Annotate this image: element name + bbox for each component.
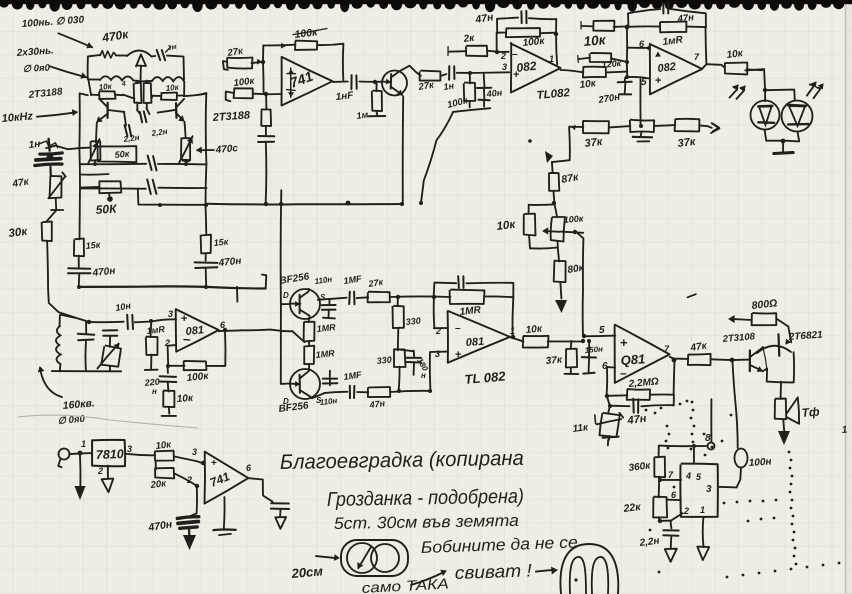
svg-text:100к: 100к xyxy=(563,213,584,225)
wire (Q5 drain) xyxy=(281,383,290,385)
resistor 80k xyxy=(554,261,566,283)
transistor Q2 xyxy=(175,103,178,118)
resistor 20k xyxy=(155,461,157,469)
capacitor 47n (U3 fb) xyxy=(628,9,660,27)
wire (pin7) xyxy=(660,479,681,481)
transistor Q1 xyxy=(106,103,108,118)
capacitor 110n (lower) xyxy=(312,393,325,398)
resistor 100k (741 in) xyxy=(234,88,253,99)
svg-text:1: 1 xyxy=(510,326,515,336)
svg-text:Тф: Тф xyxy=(801,404,820,420)
svg-text:7810: 7810 xyxy=(96,447,124,462)
resistor 10k (U4 gnd) xyxy=(163,391,174,408)
op-amp U1 741 xyxy=(282,57,333,106)
wire (stub) xyxy=(236,287,238,302)
arrow (gnd 2.2n) xyxy=(665,549,677,562)
capacitor 2.2n (low) xyxy=(125,125,128,136)
resistor 330 (1) xyxy=(393,306,404,328)
pretzel sketch (wrong coil) xyxy=(560,544,618,594)
wire (pin6) xyxy=(667,499,681,501)
resistor 10k (7810) xyxy=(155,451,174,461)
resistor 10k (left) xyxy=(99,91,116,99)
wire (left rail down) xyxy=(47,241,89,322)
wire (rail stub down) xyxy=(280,190,283,384)
wire (U5 pin5 in) xyxy=(583,335,615,338)
arrow (below speaker) xyxy=(782,420,785,431)
svg-text:н: н xyxy=(421,371,426,380)
ink dots (pen rest trail) xyxy=(691,401,694,404)
svg-text:50к: 50к xyxy=(114,148,130,160)
wire (U3 pin6 link) xyxy=(627,47,649,49)
wire (U2b pin2) xyxy=(434,327,448,329)
resistor 22k xyxy=(653,497,667,518)
node 8 xyxy=(708,443,715,450)
resistor 470k (zigzag) xyxy=(100,51,116,58)
wire (mid rail) xyxy=(79,286,265,288)
wire (to U5 pin5) xyxy=(578,234,584,337)
capacitor 1n (stack) xyxy=(49,139,50,151)
wire (below 22k) xyxy=(659,517,672,521)
wire (osc web) xyxy=(123,95,134,99)
svg-text:1н: 1н xyxy=(443,80,455,92)
wire (to LED1) xyxy=(745,69,765,101)
resistor 100k (U2 fb) xyxy=(497,33,506,53)
svg-text:1нF: 1нF xyxy=(335,90,355,103)
svg-text:081: 081 xyxy=(185,324,205,338)
wire (LED bottoms) xyxy=(765,130,784,141)
resistor 1MR (to gnd) xyxy=(150,321,153,336)
trimmer capacitor (tank) xyxy=(103,329,118,331)
wire (fb right) xyxy=(511,283,514,337)
resistor 100k (741 fb) xyxy=(295,41,317,50)
capacitor (top box) xyxy=(157,50,161,60)
arrow (10kHz) xyxy=(37,112,77,116)
wire (cap to Q3) xyxy=(359,81,382,83)
trimmer 47k xyxy=(50,176,62,198)
capacitor 47n (U5 fb2) xyxy=(607,396,630,407)
coil sketch (correct) xyxy=(341,540,408,576)
wire (555 top rail) xyxy=(659,445,707,448)
svg-text:15к: 15к xyxy=(85,239,101,251)
op-amp U5 Q81 xyxy=(615,325,670,383)
resistor 800R xyxy=(752,313,777,325)
resistor 360k xyxy=(654,457,665,478)
transformer winding (left) xyxy=(100,76,133,80)
svg-text:330: 330 xyxy=(376,354,392,366)
svg-text:10к: 10к xyxy=(496,219,517,233)
wire (osc out link) xyxy=(184,94,207,97)
capacitor (bus a) xyxy=(148,156,152,170)
svg-text:20см: 20см xyxy=(290,563,324,581)
svg-text:–: – xyxy=(620,366,627,380)
resistor 10k (U3 pin6) xyxy=(580,22,582,29)
resistor 10k (pot loop) xyxy=(524,214,536,236)
op-amp U2b 081 xyxy=(448,311,510,363)
wire (U2 out) xyxy=(561,70,584,72)
wire (U2 pin3) xyxy=(470,71,510,74)
resistor 2k xyxy=(466,46,487,57)
wire (bus row 1) xyxy=(46,146,90,150)
svg-text:470с: 470с xyxy=(214,143,239,156)
arrow (gnd pin1) xyxy=(697,547,709,561)
svg-text:5: 5 xyxy=(641,77,647,88)
pot loop (top/bottom) xyxy=(529,203,554,205)
transformer winding (right) xyxy=(152,77,184,81)
svg-text:1: 1 xyxy=(700,505,705,515)
LED D2 xyxy=(782,101,813,132)
wire (jack down) xyxy=(79,453,82,486)
wire (U2 pin2) xyxy=(497,51,509,53)
resistor 10k (U3 pin5) xyxy=(582,71,584,73)
wire (bus rail 1) xyxy=(81,163,146,165)
trimmer P2 (470) xyxy=(181,138,191,160)
capacitor 2.2n xyxy=(663,529,678,531)
ground (U6) xyxy=(223,497,226,529)
svg-text:082: 082 xyxy=(516,59,538,75)
wire (U2b out) xyxy=(510,337,523,341)
resistor (741 gnd branch) xyxy=(261,109,271,126)
svg-text:20к: 20к xyxy=(149,478,168,491)
arrow (to pretzel) xyxy=(536,570,554,572)
svg-text:2: 2 xyxy=(97,466,103,476)
resistor 1MR (chain 2) xyxy=(308,341,310,346)
capacitor 10n xyxy=(126,315,129,329)
capacitor 1n xyxy=(448,66,450,80)
capacitor 470n (right) xyxy=(195,261,218,264)
resistor 15k (right) xyxy=(201,235,211,254)
LED D1 xyxy=(751,101,780,130)
wire (to 30k) xyxy=(46,211,56,222)
pen dash xyxy=(688,294,696,297)
wire (gnd sweep) xyxy=(453,108,490,112)
wire (U6 out) xyxy=(248,478,273,502)
wire (osc box bottom) xyxy=(138,189,206,205)
svg-text:10к: 10к xyxy=(525,324,543,336)
wire (U3 bus) xyxy=(626,27,628,78)
wire (U3 pin5 link) xyxy=(627,77,649,79)
capacitor (741 gnd branch) xyxy=(258,135,274,137)
wire (bus rail 3) xyxy=(81,187,146,189)
svg-text:3: 3 xyxy=(706,484,712,495)
resistor (row 2) xyxy=(630,120,654,133)
wire (center tap) xyxy=(133,80,152,81)
arrow (inside coil) xyxy=(358,546,371,568)
wire (pin1) xyxy=(702,517,705,547)
svg-text:50К: 50К xyxy=(95,201,118,217)
svg-text:3: 3 xyxy=(435,349,440,359)
svg-text:37к: 37к xyxy=(545,355,563,367)
svg-text:–: – xyxy=(512,49,518,60)
trimmer symbol (top box) xyxy=(136,54,146,66)
wire (U4 out to chain) xyxy=(240,330,292,332)
svg-text:47н: 47н xyxy=(368,398,386,410)
resistor 47k (out) xyxy=(688,354,711,365)
svg-text:∅ 0я0: ∅ 0я0 xyxy=(23,63,51,75)
arrow (filled, 470n) xyxy=(183,535,196,550)
resistor 27k xyxy=(420,71,441,81)
speaker TF xyxy=(775,399,787,420)
resistor 120k xyxy=(577,56,580,63)
svg-text:Благоевградка (копирана: Благоевградка (копирана xyxy=(280,447,524,474)
svg-text:4: 4 xyxy=(120,81,126,88)
LED emission arrows (right) xyxy=(807,85,814,96)
capacitor (U6 out) xyxy=(271,502,289,504)
resistor 330 (2) xyxy=(394,349,406,368)
potentiometer 50K xyxy=(99,181,122,193)
wire (osc box left edge) xyxy=(78,93,81,239)
svg-text:10к: 10к xyxy=(176,393,194,405)
capacitor 1nF xyxy=(350,75,352,89)
svg-text:+: + xyxy=(620,335,628,350)
svg-text:1МR: 1МR xyxy=(316,322,336,334)
resistor 100k (U4 feedback) xyxy=(168,365,185,367)
svg-text:330: 330 xyxy=(405,315,421,327)
resistor 15k (left) xyxy=(74,239,84,257)
resistor (center left) xyxy=(134,83,142,104)
capacitor 40n xyxy=(483,74,486,87)
svg-text:47н: 47н xyxy=(626,413,648,427)
resistor 47n (lower) xyxy=(368,387,390,397)
svg-text:110н: 110н xyxy=(319,396,338,407)
svg-text:1мR: 1мR xyxy=(146,324,166,336)
svg-text:8: 8 xyxy=(705,433,711,444)
transistor Q3 xyxy=(382,71,407,96)
wire (U5 out) xyxy=(670,357,688,359)
ink dot (stray) xyxy=(528,139,532,143)
svg-text:10к: 10к xyxy=(583,32,607,49)
capacitor 47n (U2 fb) xyxy=(497,18,518,33)
svg-text:10к: 10к xyxy=(726,48,744,61)
resistor 87k xyxy=(551,162,554,173)
wire (tank bottom) xyxy=(52,370,121,372)
resistor 30k xyxy=(42,222,52,242)
ground (LEDs) xyxy=(782,142,784,151)
svg-text:3: 3 xyxy=(168,309,173,319)
resistor 1MR (U2b fb) xyxy=(450,290,485,304)
capacitor 110n (upper) xyxy=(318,298,329,301)
LED emission arrows (left) xyxy=(730,87,738,98)
svg-text:+: + xyxy=(181,313,187,325)
svg-text:150н: 150н xyxy=(584,344,603,355)
capacitor (bus b) xyxy=(147,180,151,195)
arrow (gnd U6 out) xyxy=(275,517,286,529)
resistor 1M (Q3 bias) xyxy=(376,83,378,91)
svg-text:2: 2 xyxy=(500,51,506,61)
svg-text:2: 2 xyxy=(683,506,689,516)
resistor 27k (741) xyxy=(227,58,253,69)
wire (Q2 emitter) xyxy=(185,122,186,138)
wire (U5 pin6) xyxy=(607,367,616,396)
svg-text:+: + xyxy=(455,349,461,361)
wire (rail to opamp) xyxy=(135,319,176,322)
connector (input jack) xyxy=(59,449,70,460)
transistor Q7 2T6821 xyxy=(757,346,791,353)
arrow (800R left) xyxy=(734,318,752,321)
arrow (filled, jack) xyxy=(75,486,86,500)
capacitor (U2b fb) xyxy=(434,283,457,298)
op-amp U6 741 xyxy=(205,452,249,504)
wire (741 out) xyxy=(333,81,348,83)
pencil curve xyxy=(18,415,198,428)
wire (741 bottom rail) xyxy=(206,203,403,206)
wire (U4 pin2) xyxy=(168,345,177,366)
svg-text:1МR: 1МR xyxy=(315,348,335,360)
wire (pin5 to row) xyxy=(639,79,641,126)
wire (hop) xyxy=(127,51,151,57)
transistor Q5 BF256 xyxy=(290,369,320,399)
trimmer 11k xyxy=(608,406,610,414)
capacitor 180n xyxy=(398,350,413,352)
resistor (center right) xyxy=(144,83,152,103)
curved arrow (to tank) xyxy=(40,368,62,397)
capacitor 220n xyxy=(167,366,169,373)
wire (Q4 source) xyxy=(329,298,347,299)
svg-text:3: 3 xyxy=(192,447,197,457)
wire (to lower) xyxy=(265,94,267,109)
wire (bus rail 2) xyxy=(81,173,109,176)
resistor 100k (gnd) xyxy=(469,74,471,84)
wire (Q3 collector out) xyxy=(400,66,421,76)
resistor 2.2M (U5 fb) xyxy=(607,394,627,397)
svg-text:2: 2 xyxy=(435,326,441,336)
svg-text:37к: 37к xyxy=(584,136,605,150)
svg-text:37к: 37к xyxy=(677,136,698,150)
ground (row) xyxy=(640,132,643,135)
transistor Q4 BF256 xyxy=(290,289,320,319)
svg-text:2к: 2к xyxy=(462,33,476,45)
wire (Q1 emitter) xyxy=(95,123,98,143)
arrow (note to transformer) xyxy=(58,33,92,47)
capacitor (tank) xyxy=(85,322,87,333)
svg-text:–: – xyxy=(455,323,461,334)
capacitor 2.2n (center) xyxy=(140,112,142,122)
wire (Q4 drain) xyxy=(281,303,289,305)
resistor 27k (upper) xyxy=(368,292,390,303)
arrow (to coil) xyxy=(316,556,336,558)
resistor 1M (U3 fb) xyxy=(627,25,660,28)
svg-text:10к: 10к xyxy=(579,78,597,91)
svg-text:1н: 1н xyxy=(28,139,41,151)
wire (tank top link) xyxy=(60,315,75,318)
resistor 1MR (chain 1) xyxy=(308,319,310,322)
svg-text:40н: 40н xyxy=(485,87,503,99)
wire (chain down) xyxy=(552,128,570,162)
arrow (gnd 7810) xyxy=(102,479,114,493)
svg-text:30к: 30к xyxy=(8,226,29,240)
capacitor 1MF (lower) xyxy=(324,392,347,393)
svg-text:3: 3 xyxy=(502,62,507,72)
svg-text:+: + xyxy=(211,458,217,469)
resistor 37k (U5 gnd) xyxy=(570,341,573,349)
transistor Q6 2T3108 xyxy=(749,351,751,372)
svg-text:100н: 100н xyxy=(748,456,771,469)
svg-text:н: н xyxy=(152,387,157,396)
op-amp U2 TL082 xyxy=(511,43,561,93)
svg-text:D: D xyxy=(283,291,289,300)
svg-text:15к: 15к xyxy=(213,236,229,248)
wire (osc box right edge) xyxy=(205,93,208,235)
resistor 37k (3) xyxy=(675,119,700,132)
svg-text:10к: 10к xyxy=(165,83,180,93)
svg-text:2: 2 xyxy=(186,475,192,485)
svg-text:1м: 1м xyxy=(356,109,369,121)
svg-text:4: 4 xyxy=(685,471,691,481)
svg-text:Грозданка - подобрена): Грозданка - подобрена) xyxy=(327,486,524,511)
resistor 50k (big box) xyxy=(98,146,137,162)
wire (pin3) xyxy=(718,486,737,489)
wire (U4 output) xyxy=(219,329,241,332)
capacitor 100n (electrolytic) xyxy=(735,449,748,468)
svg-text:S: S xyxy=(320,293,326,302)
op-amp U4 081 xyxy=(176,309,219,352)
svg-text:5: 5 xyxy=(599,325,605,336)
wire (555 left drop) xyxy=(658,446,660,457)
svg-text:3: 3 xyxy=(127,444,132,454)
wire (U3 out) xyxy=(702,64,725,69)
capacitor 470n (left) xyxy=(68,267,90,270)
svg-text:1: 1 xyxy=(81,439,86,449)
wire (Q3 emitter down) xyxy=(402,96,404,204)
wire (rail into cap) xyxy=(89,321,124,323)
wire (Q7 to speaker) xyxy=(780,382,782,399)
resistor 37k (1) xyxy=(569,126,583,128)
wire (U2b pin3) xyxy=(430,352,448,391)
arrow (pot wiper) xyxy=(560,232,583,233)
svg-text:47н: 47н xyxy=(676,12,695,25)
capacitor 1MF (upper) xyxy=(348,292,351,304)
IC 7810 xyxy=(92,440,126,467)
svg-text:свиват !: свиват ! xyxy=(454,560,532,583)
wire (osc left top link) xyxy=(80,94,88,96)
trimmer P1 xyxy=(91,141,101,160)
svg-text:+: + xyxy=(655,75,661,87)
svg-text:D: D xyxy=(283,397,289,406)
potentiometer 100k xyxy=(551,217,565,242)
arrow (chain end) xyxy=(555,300,567,313)
svg-text:11к: 11к xyxy=(572,422,590,435)
wire (U6 pin2 down) xyxy=(190,486,197,516)
wire (osc top box) xyxy=(88,55,101,79)
svg-text:082: 082 xyxy=(657,61,677,75)
arrow (samo taka) xyxy=(411,572,444,585)
capacitor 270n xyxy=(624,78,627,82)
wire (LED2 top) xyxy=(765,90,795,100)
arrow (row end) xyxy=(707,126,712,128)
wire (7810 out) xyxy=(125,454,155,456)
svg-text:1: 1 xyxy=(549,54,554,64)
resistor 10k (right) xyxy=(161,93,177,101)
IC U7 555 xyxy=(680,464,718,517)
wire (fb junction) xyxy=(262,45,265,93)
op-amp U3 082 xyxy=(650,44,702,95)
svg-text:22к: 22к xyxy=(622,501,642,515)
inductor (tank) xyxy=(59,315,61,326)
wire (to 100n cap) xyxy=(732,360,737,448)
svg-text:5ст. 30см във земята: 5ст. 30см във земята xyxy=(334,512,519,533)
svg-text:081: 081 xyxy=(465,336,484,349)
arrow (note to winding) xyxy=(50,66,87,77)
